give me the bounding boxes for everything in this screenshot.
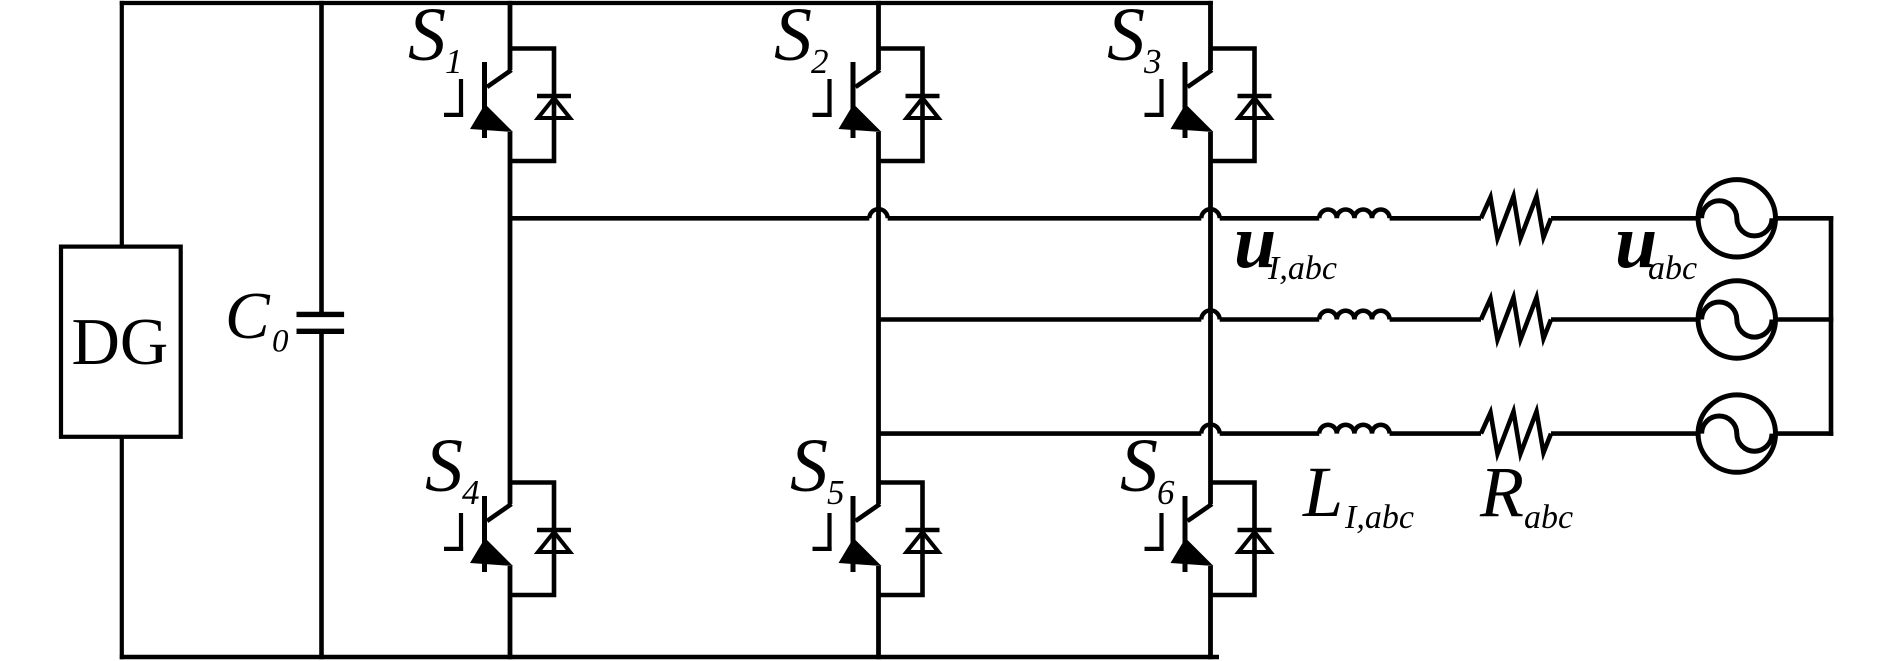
wire source-to-bus phase a <box>1776 216 1834 221</box>
svg-text:S: S <box>1120 424 1158 508</box>
svg-text:S: S <box>1107 0 1145 77</box>
wire crossover hop at x=1210.5 phase a <box>1201 209 1219 218</box>
wire resistor-to-source phase a <box>1551 216 1698 221</box>
wire inductor-to-resistor phase c <box>1390 431 1481 436</box>
svg-text:S: S <box>425 424 463 508</box>
transistor S4 (IGBT) <box>444 496 513 572</box>
resistor R phase b <box>1481 298 1551 340</box>
label S4 <box>425 424 480 512</box>
wire source-to-bus phase b <box>1776 317 1834 322</box>
wire leg 1 lower (emitter S4) <box>508 566 513 659</box>
svg-text:I,abc: I,abc <box>1267 250 1337 287</box>
wire leg 1 middle (phase node) <box>508 132 513 504</box>
transistor S1 (IGBT) <box>444 62 513 138</box>
svg-text:1: 1 <box>445 42 463 81</box>
wire resistor-to-source phase c <box>1551 431 1698 436</box>
svg-text:R: R <box>1479 452 1524 532</box>
diode D5 (antiparallel) <box>880 483 940 596</box>
DG source block <box>61 247 181 437</box>
diode D1 (antiparallel) <box>511 49 571 162</box>
wire leg 3 lower (emitter S6) <box>1208 566 1213 659</box>
transistor S2 (IGBT) <box>813 62 882 138</box>
label S2 <box>774 0 829 81</box>
wire top DC bus <box>120 1 1213 5</box>
AC source u_b <box>1698 281 1775 358</box>
svg-text:S: S <box>790 424 828 508</box>
wire DG bottom lead <box>120 437 124 659</box>
svg-text:C: C <box>225 279 271 353</box>
svg-text:DG: DG <box>72 305 169 379</box>
wire crossover hop at x=878.5 phase a <box>869 209 887 218</box>
svg-text:3: 3 <box>1143 42 1162 81</box>
wire inductor-to-resistor phase a <box>1390 216 1481 221</box>
label R_abc <box>1479 452 1573 536</box>
svg-text:abc: abc <box>1524 499 1573 536</box>
transistor S6 (IGBT) <box>1145 496 1214 572</box>
wire crossover hop at x=1210.5 phase b <box>1201 310 1219 319</box>
wire C0 top lead <box>319 1 324 315</box>
svg-text:I,abc: I,abc <box>1344 499 1414 536</box>
diode D2 (antiparallel) <box>880 49 940 162</box>
wire leg 2 lower (emitter S5) <box>876 566 881 659</box>
resistor R phase c <box>1481 412 1551 454</box>
wire leg 3 upper (collector S3) <box>1208 1 1213 70</box>
svg-text:6: 6 <box>1157 473 1175 512</box>
svg-text:5: 5 <box>827 473 845 512</box>
label S6 <box>1120 424 1175 512</box>
wire bottom DC bus <box>120 655 1219 659</box>
wire C0 bottom lead <box>319 331 324 659</box>
label S5 <box>790 424 845 512</box>
label u_abc (grid voltage) <box>1615 200 1697 287</box>
svg-text:L: L <box>1302 452 1343 532</box>
resistor R phase a <box>1481 196 1551 238</box>
wire leg 2 middle (phase node) <box>876 132 881 504</box>
diode D3 (antiparallel) <box>1212 49 1272 162</box>
diode D4 (antiparallel) <box>511 483 571 596</box>
svg-text:2: 2 <box>811 42 829 81</box>
wire DG top lead <box>120 1 124 246</box>
label S3 <box>1107 0 1162 81</box>
label S1 <box>408 0 463 81</box>
label u_I,abc (inverter voltage) <box>1234 200 1337 287</box>
AC source u_c <box>1698 395 1775 472</box>
wire resistor-to-source phase b <box>1551 317 1698 322</box>
label L_I,abc <box>1302 452 1414 536</box>
transistor S5 (IGBT) <box>813 496 882 572</box>
svg-text:0: 0 <box>272 324 289 360</box>
wire leg 2 upper (collector S2) <box>876 1 881 70</box>
wire phase a line <box>510 216 1319 221</box>
wire source-to-bus phase c <box>1776 431 1834 436</box>
inductor L phase c <box>1319 425 1389 434</box>
svg-text:abc: abc <box>1648 250 1697 287</box>
diode D6 (antiparallel) <box>1212 483 1272 596</box>
wire inductor-to-resistor phase b <box>1390 317 1481 322</box>
wire phase c line <box>879 431 1320 436</box>
wire phase b line <box>879 317 1320 322</box>
capacitor C0 <box>297 314 345 331</box>
transistor S3 (IGBT) <box>1145 62 1214 138</box>
wire leg 1 upper (collector S1) <box>508 1 513 70</box>
svg-text:4: 4 <box>462 473 480 512</box>
AC source u_a <box>1698 180 1775 257</box>
inductor L phase a <box>1319 210 1389 219</box>
wire right grid bus <box>1829 216 1834 436</box>
svg-text:S: S <box>774 0 812 77</box>
inductor L phase b <box>1319 311 1389 320</box>
wire leg 3 middle (phase node) <box>1208 132 1213 504</box>
label C0 <box>225 279 289 360</box>
wire crossover hop at x=1210.5 phase c <box>1201 424 1219 433</box>
svg-text:S: S <box>408 0 446 77</box>
